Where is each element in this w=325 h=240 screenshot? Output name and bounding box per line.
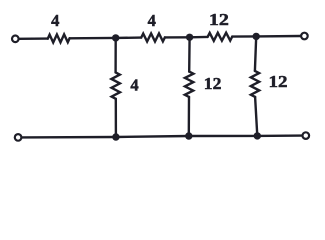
resistor R1 value 4 (top left): [48, 34, 70, 42]
wire R5 down to node E: [188, 97, 191, 136]
wire node A to R2: [116, 36, 142, 39]
terminal bottom-right: [303, 132, 310, 139]
wire top-left terminal to R1: [19, 37, 48, 40]
wire R6 down to node F: [255, 97, 257, 136]
resistor R5 value 12 (middle shunt): [185, 72, 194, 97]
wire node E to node F: [189, 135, 257, 138]
wire node B to R3: [190, 36, 208, 39]
terminal top-left: [12, 36, 19, 43]
wire bottom-left terminal to node D: [22, 136, 116, 139]
resistor R2 value 4 (top middle): [141, 34, 165, 42]
node B junction dot (top): [186, 34, 193, 41]
wire node F to bottom-right terminal: [257, 134, 302, 137]
svg-text:4: 4: [130, 76, 138, 95]
node A junction dot (top): [112, 34, 119, 41]
resistor R3 value 12 (top right): [208, 33, 233, 41]
terminal bottom-left: [15, 134, 22, 141]
wire node D to node E: [116, 136, 189, 137]
svg-text:12: 12: [269, 72, 288, 91]
svg-text:12: 12: [209, 10, 229, 29]
svg-text:4: 4: [51, 11, 59, 30]
node C junction dot (top): [253, 33, 260, 40]
wire node A down to R4: [114, 38, 116, 73]
svg-text:4: 4: [148, 11, 156, 30]
node E junction dot (bottom): [185, 132, 192, 139]
resistor R6 value 12 (right shunt): [251, 71, 259, 97]
wire node C to top-right terminal: [256, 35, 300, 38]
node D junction dot (bottom): [112, 133, 119, 140]
node F junction dot (bottom): [254, 132, 261, 139]
terminal top-right: [301, 33, 308, 40]
wire R3 to node C: [232, 35, 256, 38]
wire R4 down to node D: [115, 99, 117, 137]
resistor R4 value 4 (left shunt): [111, 72, 120, 98]
wire R1 to node A: [70, 37, 116, 40]
svg-text:12: 12: [204, 74, 222, 93]
wire node B down to R5: [188, 37, 191, 71]
wire R2 to node B: [165, 36, 190, 39]
wire node C down to R6: [255, 36, 256, 71]
